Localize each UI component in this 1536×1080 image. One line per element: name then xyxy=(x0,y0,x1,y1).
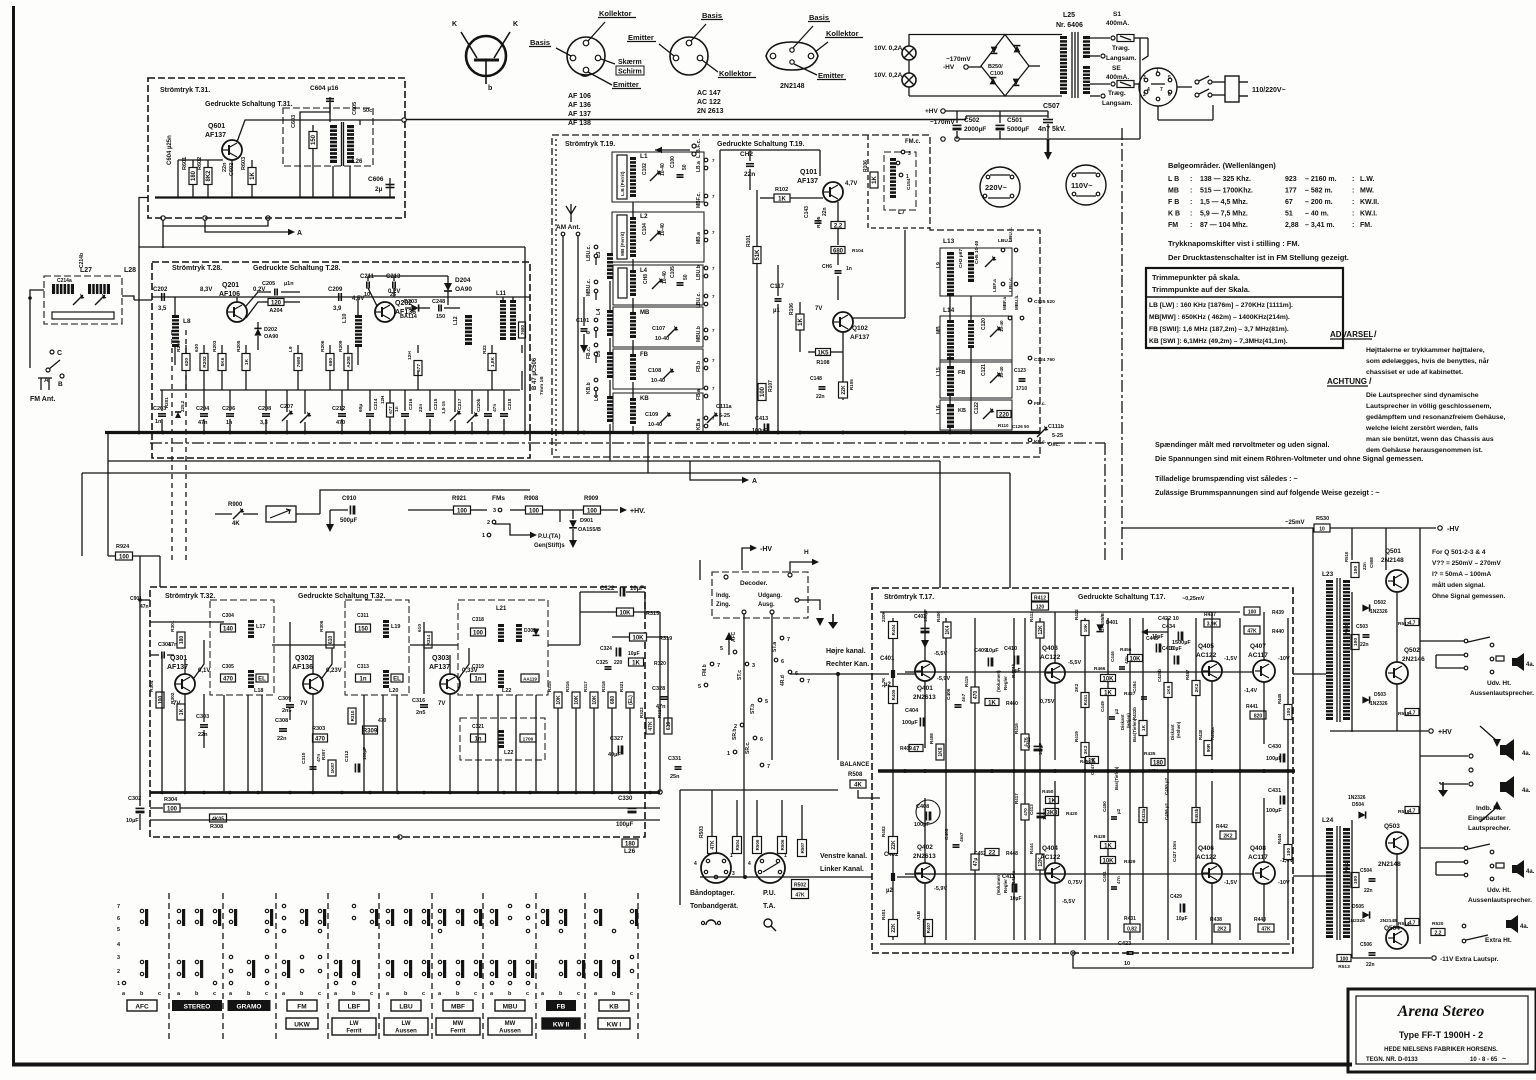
resistor R108 xyxy=(816,349,831,356)
svg-text:R206: R206 xyxy=(320,340,326,352)
oscillator coil L15 xyxy=(947,366,954,396)
IF transformer 4 box xyxy=(460,718,545,760)
svg-text:R448: R448 xyxy=(1006,851,1018,857)
T17 vertical wires xyxy=(924,612,926,661)
svg-text:6: 6 xyxy=(117,916,120,922)
wire T32 ladder verticals xyxy=(223,695,225,792)
svg-text:C143: C143 xyxy=(804,206,810,218)
svg-text:R304: R304 xyxy=(149,680,155,692)
wire L28 to T28 xyxy=(134,299,152,301)
svg-text:R439: R439 xyxy=(1272,610,1284,616)
svg-text:C425b: C425b xyxy=(1157,669,1162,682)
svg-text:7mm 1B: 7mm 1B xyxy=(539,376,545,395)
svg-text:5: 5 xyxy=(765,699,768,705)
printed circuit T.32 box xyxy=(150,587,645,837)
svg-text:10V. 0,2A.: 10V. 0,2A. xyxy=(874,45,904,52)
pinout 2N2148 TO-3 case xyxy=(766,42,818,70)
svg-text:Skærm: Skærm xyxy=(618,59,642,66)
wire Q102 collector right xyxy=(852,317,905,319)
svg-text:Kollektor: Kollektor xyxy=(826,29,859,38)
resistor R444 xyxy=(1036,854,1044,870)
right pin chain T19 xyxy=(704,158,708,162)
pinout AF-series case xyxy=(567,37,605,75)
svg-text:Zulässige Brummspannungen si: Zulässige Brummspannungen sind auf folge… xyxy=(1155,488,1380,497)
svg-text:-HV: -HV xyxy=(1447,526,1459,533)
resistor R406 xyxy=(943,622,951,638)
svg-text:R404: R404 xyxy=(891,624,896,635)
lamp dial 1 xyxy=(902,46,916,60)
svg-text:Bas(Tiefen): Bas(Tiefen) xyxy=(1132,718,1137,742)
svg-text:L20: L20 xyxy=(389,688,398,694)
svg-text:+HV: +HV xyxy=(1438,729,1452,736)
svg-text:SR.b: SR.b xyxy=(732,729,738,740)
svg-text:L8: L8 xyxy=(183,318,191,325)
svg-text:C302: C302 xyxy=(128,796,141,802)
svg-text:L14: L14 xyxy=(943,307,955,314)
svg-text:C411: C411 xyxy=(1002,874,1015,880)
resistor R519 xyxy=(1405,807,1419,814)
svg-text:7: 7 xyxy=(712,158,715,163)
svg-text:C328: C328 xyxy=(652,686,665,692)
svg-text:60µ: 60µ xyxy=(358,404,364,412)
svg-text:L23: L23 xyxy=(1322,571,1334,578)
svg-text:4: 4 xyxy=(1147,87,1150,93)
svg-text:470: 470 xyxy=(336,420,345,426)
svg-text:5000µF: 5000µF xyxy=(1007,126,1029,133)
svg-text:1K6: 1K6 xyxy=(1166,685,1172,694)
svg-text:~0,25mV: ~0,25mV xyxy=(1182,596,1205,602)
trimmer C215a xyxy=(73,295,83,305)
svg-text:man sie benützt, wenn das: man sie benützt, wenn das Chassis aus xyxy=(1366,436,1494,443)
svg-text:1n: 1n xyxy=(846,266,852,272)
resistor below T32 xyxy=(622,839,638,847)
svg-text:R921: R921 xyxy=(452,496,467,502)
svg-text:Strömtryk T.31.: Strömtryk T.31. xyxy=(160,87,210,94)
arrow T19 top xyxy=(655,149,690,151)
resistor R431 xyxy=(1124,924,1140,932)
diode D901 xyxy=(569,520,577,528)
svg-text:2N 2613: 2N 2613 xyxy=(697,108,724,115)
svg-text:FMs: FMs xyxy=(492,495,505,502)
DIN socket tape xyxy=(701,853,731,883)
resistor R401 xyxy=(889,920,898,937)
potentiometer R900 xyxy=(233,509,243,519)
svg-text:R417: R417 xyxy=(1014,793,1019,804)
svg-text:22n: 22n xyxy=(1366,962,1375,968)
svg-text:100: 100 xyxy=(1340,956,1349,962)
svg-text:8,3V: 8,3V xyxy=(200,287,212,293)
svg-text:Nr. 6406: Nr. 6406 xyxy=(1056,22,1083,29)
svg-text:Q601: Q601 xyxy=(208,123,225,130)
svg-text:180: 180 xyxy=(1153,760,1164,766)
wire Q301 leads xyxy=(184,694,186,792)
svg-text:R908: R908 xyxy=(524,496,539,502)
resistor R908 xyxy=(526,506,543,514)
svg-text:R530: R530 xyxy=(1316,516,1329,522)
svg-text:-HV: -HV xyxy=(943,64,955,71)
svg-text:C202: C202 xyxy=(153,287,168,293)
svg-text:7: 7 xyxy=(712,328,715,333)
svg-text:180: 180 xyxy=(191,170,197,181)
svg-text:R432b: R432b xyxy=(1132,707,1137,720)
svg-text:1K: 1K xyxy=(244,358,250,365)
resistor R405 xyxy=(889,687,898,704)
svg-text:C451: C451 xyxy=(1102,871,1107,882)
svg-text:R409: R409 xyxy=(900,746,912,752)
resistor R304a xyxy=(156,692,164,708)
svg-text:R429: R429 xyxy=(1124,859,1136,865)
wire IF interconnect xyxy=(272,644,345,646)
svg-text:R518: R518 xyxy=(1398,711,1410,717)
svg-text:c: c xyxy=(213,991,216,997)
svg-text:680: 680 xyxy=(610,696,616,705)
svg-text:~170mV: ~170mV xyxy=(930,119,955,126)
svg-text:C604 µ16: C604 µ16 xyxy=(310,85,339,92)
svg-text:CH8: CH8 xyxy=(643,274,649,284)
resistor R602 xyxy=(204,168,212,185)
resistor R442 xyxy=(1220,831,1236,839)
svg-text:R444: R444 xyxy=(1029,843,1034,854)
svg-text:150: 150 xyxy=(358,626,369,632)
svg-text:~170mV: ~170mV xyxy=(946,56,971,63)
svg-text:MB[MW] : 650KHz ( 462m) – 1400: MB[MW] : 650KHz ( 462m) – 1400KHz(214m). xyxy=(1149,314,1290,321)
svg-text:D505: D505 xyxy=(1352,904,1364,910)
svg-text:10-40: 10-40 xyxy=(662,271,668,284)
resistor R320 xyxy=(629,658,644,666)
svg-text:D204: D204 xyxy=(455,277,471,284)
svg-text:150: 150 xyxy=(311,134,317,145)
svg-text:110V~: 110V~ xyxy=(1071,181,1093,190)
svg-text:c: c xyxy=(526,991,529,997)
speaker group 2 switch xyxy=(1420,847,1464,849)
svg-text:R105: R105 xyxy=(816,216,822,228)
svg-text:Basis: Basis xyxy=(530,38,550,47)
svg-text:-11V Extra Lautspr.: -11V Extra Lautspr. xyxy=(1440,956,1499,963)
svg-text:L25: L25 xyxy=(1063,12,1075,19)
svg-text:140: 140 xyxy=(223,626,234,632)
svg-text:22n: 22n xyxy=(222,162,228,172)
svg-text:7: 7 xyxy=(712,266,715,271)
svg-text:C901: C901 xyxy=(130,596,142,602)
svg-text:D503: D503 xyxy=(1374,692,1386,698)
svg-text:c: c xyxy=(318,991,321,997)
svg-text:FM.b: FM.b xyxy=(702,664,708,676)
svg-text:12K: 12K xyxy=(1038,625,1044,635)
svg-text:10µF: 10µF xyxy=(1170,646,1182,652)
svg-text:C121: C121 xyxy=(981,364,987,376)
svg-text:1N2326: 1N2326 xyxy=(1348,795,1366,801)
trim points table box xyxy=(1146,268,1343,348)
svg-text:1K: 1K xyxy=(798,317,804,325)
diode D502 xyxy=(1362,604,1369,611)
DIN socket PU xyxy=(755,853,785,883)
coil L27 winding b xyxy=(88,284,110,294)
svg-text:D203: D203 xyxy=(404,299,417,305)
svg-text:Q302: Q302 xyxy=(295,655,312,662)
svg-text:Båndoptager.: Båndoptager. xyxy=(690,889,735,897)
svg-text:R318: R318 xyxy=(601,681,606,692)
trimmer C207 xyxy=(282,411,292,421)
svg-text:L24: L24 xyxy=(1322,817,1334,824)
diode D204 xyxy=(444,283,452,291)
transistor symbol legend xyxy=(466,36,506,76)
svg-text:1K: 1K xyxy=(872,175,878,183)
svg-text:C434: C434 xyxy=(1162,624,1176,630)
terminal -11V xyxy=(1432,956,1436,960)
svg-text:R519: R519 xyxy=(1398,809,1410,815)
svg-text::: : xyxy=(1190,211,1192,218)
svg-text:Gedruckte Schaltung T.31.: Gedruckte Schaltung T.31. xyxy=(205,101,293,108)
FM dipole antenna xyxy=(38,377,52,379)
svg-text:C504: C504 xyxy=(1360,868,1372,874)
svg-text:A204: A204 xyxy=(269,308,283,314)
svg-text:7: 7 xyxy=(712,294,715,299)
wire bottom border xyxy=(12,1063,1352,1067)
svg-text::: : xyxy=(1352,199,1354,206)
svg-text:5: 5 xyxy=(1168,75,1171,81)
svg-text:Tonbandgerät.: Tonbandgerät. xyxy=(690,903,738,910)
svg-text:R307: R307 xyxy=(321,749,326,760)
svg-text:51: 51 xyxy=(1285,211,1293,218)
resistor R518 xyxy=(1405,709,1419,716)
svg-text:C325: C325 xyxy=(596,660,608,666)
svg-text:KB: KB xyxy=(640,396,649,402)
svg-text:ACHTUNG: ACHTUNG xyxy=(1327,377,1367,386)
svg-text:Die Lautsprecher sind dynam: Die Lautsprecher sind dynamische xyxy=(1366,392,1479,399)
svg-text:ADVARSEL: ADVARSEL xyxy=(1330,330,1374,339)
svg-text:C412: C412 xyxy=(1026,737,1031,748)
svg-text:L15: L15 xyxy=(936,367,942,376)
trimmer C210 xyxy=(300,413,310,423)
svg-text:10µF: 10µF xyxy=(126,818,139,824)
svg-text:7: 7 xyxy=(712,194,715,199)
svg-text:47K: 47K xyxy=(1261,926,1271,932)
svg-text:Die Spannungen sind mit ei: Die Spannungen sind mit einem Röhren-Vol… xyxy=(1155,454,1423,463)
svg-text:C506: C506 xyxy=(1360,942,1372,948)
svg-text:-1,4V: -1,4V xyxy=(1244,688,1257,694)
svg-text:L17: L17 xyxy=(256,624,265,630)
svg-text:– 2160 m.: – 2160 m. xyxy=(1305,176,1337,183)
svg-text:K: K xyxy=(513,21,518,28)
wire A arrow from T31 xyxy=(205,220,288,232)
terminal -HV decoder xyxy=(742,548,750,570)
resistor R308 xyxy=(210,814,227,822)
svg-text:LW: LW xyxy=(402,1021,411,1027)
svg-text:C124 760: C124 760 xyxy=(1034,357,1055,363)
svg-text:C408: C408 xyxy=(916,804,929,810)
resistor R407 xyxy=(924,920,933,937)
svg-text:Decoder.: Decoder. xyxy=(740,580,768,587)
svg-text::: : xyxy=(1190,222,1192,229)
svg-text:L22: L22 xyxy=(504,750,513,756)
svg-text:Regler: Regler xyxy=(1003,879,1008,893)
svg-text:P.U.: P.U. xyxy=(763,890,776,897)
svg-text:R105: R105 xyxy=(849,379,854,390)
svg-text:µ1n: µ1n xyxy=(284,281,294,287)
svg-text:FB: FB xyxy=(640,352,649,358)
svg-text:3,5: 3,5 xyxy=(158,306,167,312)
svg-text:100µF: 100µF xyxy=(1266,756,1282,762)
capacitor C909 xyxy=(559,510,561,522)
IF transformer 3 box xyxy=(458,600,548,695)
wire decoder outputs down xyxy=(743,614,745,877)
wire distribution row 1 xyxy=(108,460,940,462)
wire A arrow mid xyxy=(690,461,742,480)
svg-text:KB: KB xyxy=(958,408,966,414)
svg-text:AC 122: AC 122 xyxy=(697,99,721,106)
svg-text:C450: C450 xyxy=(1102,801,1107,812)
resistor R601 xyxy=(189,168,197,185)
rectifier bridge xyxy=(981,35,1029,97)
svg-text:µ2: µ2 xyxy=(886,888,893,894)
svg-text:1K: 1K xyxy=(250,171,256,179)
svg-text:100: 100 xyxy=(587,508,598,514)
svg-text:MW: MW xyxy=(453,1021,464,1027)
svg-text:chassiset er ude af kabine: chassiset er ude af kabinettet. xyxy=(1366,369,1463,376)
svg-text:R201: R201 xyxy=(176,340,182,352)
svg-text:Q404: Q404 xyxy=(1042,845,1058,852)
svg-text:5,9 — 7,5 Mhz.: 5,9 — 7,5 Mhz. xyxy=(1200,211,1248,218)
transistor Q502 xyxy=(1386,662,1408,684)
svg-text:Langsam.: Langsam. xyxy=(1102,100,1133,107)
svg-text:Diskant: Diskant xyxy=(1120,714,1125,730)
svg-text:LBF.a: LBF.a xyxy=(992,279,998,292)
svg-text:7: 7 xyxy=(767,764,770,770)
svg-text:Lautsprecher in völlig gesc: Lautsprecher in völlig geschlossenem, xyxy=(1366,403,1492,410)
svg-text:47n: 47n xyxy=(1116,876,1121,884)
svg-text:C429: C429 xyxy=(1170,894,1182,900)
svg-text:22n: 22n xyxy=(418,404,424,412)
svg-text:4: 4 xyxy=(694,861,697,867)
svg-text:R401: R401 xyxy=(881,909,886,920)
svg-text:1K8: 1K8 xyxy=(938,747,944,756)
svg-text:C212: C212 xyxy=(332,406,345,412)
svg-text:2: 2 xyxy=(487,520,490,526)
voltage selector 110V xyxy=(1066,165,1106,205)
svg-text:V?? = 250mV – 270mV: V?? = 250mV – 270mV xyxy=(1432,560,1501,567)
resistor R315b xyxy=(617,608,634,616)
svg-text:820: 820 xyxy=(1254,713,1263,719)
svg-text:22K: 22K xyxy=(891,840,897,850)
svg-text:Indg.: Indg. xyxy=(716,593,731,599)
resistor R319 xyxy=(630,633,647,641)
svg-text:470: 470 xyxy=(973,691,979,700)
mains plug xyxy=(1225,76,1239,102)
resistor R402 xyxy=(889,837,898,854)
svg-text:2N2148: 2N2148 xyxy=(1380,918,1397,924)
svg-text:– 40 m.: – 40 m. xyxy=(1305,211,1329,218)
svg-text:AF 136: AF 136 xyxy=(568,102,591,109)
svg-text:P.U.(TA): P.U.(TA) xyxy=(538,534,560,540)
svg-text:C215: C215 xyxy=(433,398,439,410)
wire selector bottom xyxy=(1157,106,1159,120)
svg-text:C430: C430 xyxy=(1268,744,1281,750)
plug symbol tape xyxy=(706,920,716,925)
resistor R502 xyxy=(792,880,809,889)
svg-text:Aussen: Aussen xyxy=(395,1029,417,1035)
coil L27 winding a xyxy=(52,284,74,294)
transistor Q202 xyxy=(375,302,395,322)
arrow C403 gnd xyxy=(921,640,929,648)
svg-text:L26: L26 xyxy=(624,848,636,855)
svg-text:5K6: 5K6 xyxy=(220,357,226,366)
svg-text:C102: C102 xyxy=(642,163,648,175)
svg-text:4K: 4K xyxy=(232,521,240,527)
svg-text:FB.a: FB.a xyxy=(696,389,702,400)
svg-text:C312: C312 xyxy=(344,750,350,762)
svg-text:C120: C120 xyxy=(981,318,987,330)
svg-text:400mA.: 400mA. xyxy=(1106,20,1129,27)
svg-text:LB.a: LB.a xyxy=(696,161,702,172)
svg-text:C310: C310 xyxy=(301,752,307,764)
svg-text:L4: L4 xyxy=(640,268,648,274)
svg-text:R415: R415 xyxy=(964,676,969,687)
svg-text:Ant.: Ant. xyxy=(719,422,730,428)
node T31 output xyxy=(402,118,406,122)
svg-text:AC117: AC117 xyxy=(1248,854,1268,861)
switch labels row 1 xyxy=(127,1000,157,1011)
svg-text:R315: R315 xyxy=(547,681,552,692)
svg-text:µ2: µ2 xyxy=(1114,708,1119,714)
left pin chain T19 xyxy=(594,245,598,249)
svg-text:R203: R203 xyxy=(212,340,218,352)
svg-text:100: 100 xyxy=(1248,609,1257,615)
svg-text:50c: 50c xyxy=(363,108,372,114)
svg-text:R419: R419 xyxy=(1074,731,1079,742)
svg-text:10µF: 10µF xyxy=(1010,896,1022,902)
svg-text:2K2: 2K2 xyxy=(1223,833,1232,839)
wire PU branch xyxy=(494,524,530,535)
svg-text:2,88: 2,88 xyxy=(1285,222,1299,229)
svg-text:677: 677 xyxy=(388,406,393,414)
svg-text:CH2: CH2 xyxy=(740,151,753,158)
printed circuit T.19 box xyxy=(552,135,1040,457)
svg-text:AF137: AF137 xyxy=(797,178,818,185)
svg-text:L13: L13 xyxy=(943,238,955,245)
switch contact field xyxy=(122,981,125,984)
svg-text:LBU.c.: LBU.c. xyxy=(1008,277,1014,292)
svg-text:-5,9V: -5,9V xyxy=(934,886,947,892)
wire psu bottom-left xyxy=(909,95,1005,97)
resistor R604 xyxy=(309,132,317,149)
svg-text:8K2: 8K2 xyxy=(206,170,212,182)
svg-text:10K: 10K xyxy=(1129,656,1141,662)
svg-text:Gen(Stift)s: Gen(Stift)s xyxy=(534,543,565,549)
svg-text:25n: 25n xyxy=(670,774,680,780)
wire FM section frame xyxy=(868,135,930,228)
svg-text:Q502: Q502 xyxy=(1404,647,1420,654)
wire right rail T19 xyxy=(719,150,721,425)
trimmer C218 xyxy=(467,413,477,423)
svg-text:T.A.: T.A. xyxy=(763,903,776,910)
svg-text:C309: C309 xyxy=(278,696,291,702)
wire Q303 leads xyxy=(449,694,451,792)
svg-text:Lautsprecher.: Lautsprecher. xyxy=(1468,825,1511,832)
svg-text:R505: R505 xyxy=(755,839,760,850)
svg-text:C107: C107 xyxy=(652,326,665,332)
svg-text:1K: 1K xyxy=(632,660,640,666)
svg-text:C316: C316 xyxy=(412,698,425,704)
svg-text:1500µF: 1500µF xyxy=(1172,640,1191,646)
svg-text:L7: L7 xyxy=(898,210,906,216)
svg-text:Q501: Q501 xyxy=(1385,548,1401,555)
svg-text:A1B: A1B xyxy=(916,910,921,920)
main chassis bus xyxy=(105,431,1040,434)
svg-text:R517: R517 xyxy=(1398,621,1410,627)
svg-text:MW: MW xyxy=(505,1021,516,1027)
svg-text:-10V: -10V xyxy=(1278,880,1290,886)
svg-text:D901: D901 xyxy=(580,518,593,524)
